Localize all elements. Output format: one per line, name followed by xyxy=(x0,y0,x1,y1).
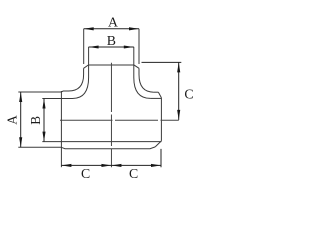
branch end face xyxy=(89,64,134,66)
weld joint line left / bottom C left extension xyxy=(60,91,62,167)
arrowheads C bottom right pair xyxy=(111,164,121,167)
dimension C right top extension xyxy=(142,61,182,63)
arrowheads B top xyxy=(89,45,99,48)
branch outer left edge + top A extension xyxy=(83,29,85,75)
branch bore left edge + top B extension xyxy=(88,47,90,78)
bore top line right xyxy=(150,97,161,99)
outer fillet right xyxy=(139,75,154,93)
run pipe bottom line xyxy=(18,147,155,149)
dimension C right line xyxy=(178,62,180,120)
outer fillet left xyxy=(69,75,84,92)
svg-text:B: B xyxy=(28,116,43,125)
svg-text:A: A xyxy=(108,14,118,29)
run centerline + bottom extension of right C dimension xyxy=(60,119,179,121)
inner fillet left xyxy=(73,78,89,99)
branch face chamfer left xyxy=(84,65,89,68)
bore top line left + left B extension xyxy=(42,98,72,100)
svg-text:A: A xyxy=(4,115,19,125)
run right end top chamfer xyxy=(158,92,161,97)
svg-text:B: B xyxy=(107,33,116,48)
dimension A top line xyxy=(84,28,139,30)
run pipe top right xyxy=(154,91,159,93)
bore bottom line xyxy=(42,141,161,143)
arrowheads A top xyxy=(84,27,94,30)
branch bore right edge + top B extension xyxy=(133,47,135,78)
branch outer right edge + top A extension xyxy=(138,29,140,75)
branch centerline xyxy=(110,63,112,167)
run pipe top line left + left A extension xyxy=(18,91,68,92)
svg-text:C: C xyxy=(129,166,138,181)
dimension C bottom line xyxy=(61,164,161,166)
arrowheads C right xyxy=(177,62,180,72)
arrowheads C bottom left pair xyxy=(61,164,71,167)
run pipe right end face xyxy=(160,98,162,141)
dimension A left line xyxy=(20,92,22,147)
branch face chamfer right xyxy=(134,65,139,68)
svg-text:C: C xyxy=(184,86,193,101)
arrowheads B left xyxy=(42,99,45,109)
arrowheads A left xyxy=(19,92,22,102)
run right end bottom chamfer xyxy=(155,141,161,147)
svg-text:C: C xyxy=(81,166,90,181)
inner fillet right xyxy=(134,78,151,99)
dimension B left line xyxy=(43,99,45,142)
bottom right extension xyxy=(160,149,162,167)
dimension B top line xyxy=(89,46,134,48)
